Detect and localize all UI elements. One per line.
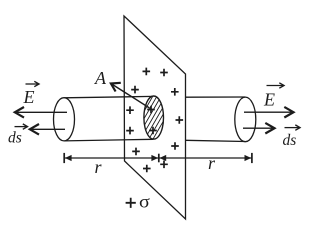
dimension line r right <box>159 153 252 163</box>
label ds right with vector arrow <box>283 125 301 149</box>
label + sigma <box>126 192 151 212</box>
dimension line r left <box>64 153 159 163</box>
label A <box>94 68 107 88</box>
E field arrow left <box>15 107 67 118</box>
E field arrow right <box>244 107 294 118</box>
cylinder bottom edge right <box>186 140 246 141</box>
plus charge 3 <box>131 86 139 94</box>
label E left with vector arrow <box>23 81 40 107</box>
ds area vector arrow right <box>243 123 275 134</box>
svg-text:A: A <box>94 68 107 88</box>
svg-text:ds: ds <box>283 132 297 149</box>
svg-text:r: r <box>95 157 103 177</box>
label E right with vector arrow <box>263 83 284 110</box>
plus charge 5 <box>126 106 134 114</box>
plus charge 4 <box>171 88 179 96</box>
plus charge 1 <box>143 68 151 76</box>
plus charge 9 <box>171 142 179 150</box>
ds area vector arrow left <box>30 124 65 135</box>
plus charge 8 <box>132 148 140 156</box>
label ds left with vector arrow <box>8 124 28 147</box>
cylinder bottom edge left <box>64 139 153 141</box>
left end cap ellipse <box>54 98 75 141</box>
svg-text:r: r <box>208 153 216 173</box>
svg-text:ds: ds <box>8 130 22 147</box>
plus charge 11 <box>143 165 151 173</box>
leader arrow to area A <box>111 83 150 108</box>
label r left <box>95 157 103 177</box>
svg-text:E: E <box>23 87 35 107</box>
plus charge 2 <box>160 69 168 77</box>
plus charge 6 <box>176 116 184 124</box>
charged plane (parallelogram sheet) <box>124 16 186 219</box>
plus charge on section upper <box>147 106 155 114</box>
label r right <box>208 153 216 173</box>
svg-text:E: E <box>263 90 275 110</box>
plus charges on plane <box>126 68 183 173</box>
plus charge on section lower <box>149 127 157 135</box>
plus charge 7 <box>126 127 134 135</box>
plus charge 10 <box>160 161 168 169</box>
right end cap ellipse <box>235 97 256 142</box>
hatched cross-section ellipse A <box>144 96 164 139</box>
cylinder top edge left <box>64 96 153 97</box>
cylinder top edge right <box>186 96 246 98</box>
svg-text:σ: σ <box>139 192 150 212</box>
